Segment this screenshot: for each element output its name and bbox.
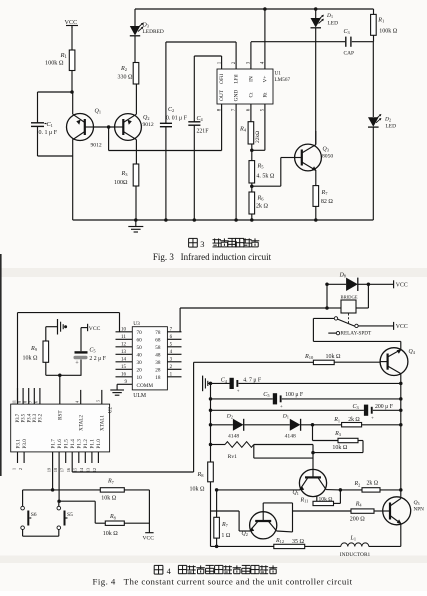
node R4-R5 xyxy=(250,149,254,153)
svg-text:VCC: VCC xyxy=(396,283,408,289)
svg-text:VCC: VCC xyxy=(396,324,408,330)
top rail xyxy=(135,8,374,10)
pin 4 wire V+ xyxy=(264,9,266,69)
svg-text:Q2: Q2 xyxy=(143,115,150,121)
diode D3 LEDRED xyxy=(130,26,140,36)
wire xyxy=(165,127,167,220)
wire xyxy=(193,125,195,220)
svg-text:13: 13 xyxy=(121,350,127,355)
switch S5 xyxy=(57,506,61,510)
svg-text:P1.0: P1.0 xyxy=(96,439,102,449)
transistor Q3 xyxy=(295,144,322,171)
svg-text:D3: D3 xyxy=(142,23,149,29)
svg-text:18: 18 xyxy=(53,468,58,472)
node D8 right xyxy=(367,283,371,287)
svg-text:48: 48 xyxy=(155,353,161,359)
svg-text:C5: C5 xyxy=(89,348,95,354)
diode D1 LED xyxy=(311,18,322,28)
resistor R4 22k xyxy=(248,122,254,144)
mcu XTAL2 pin xyxy=(80,390,82,404)
svg-text:P1.5: P1.5 xyxy=(64,439,70,449)
resistor R4 200 xyxy=(351,509,374,513)
svg-text:P3.1: P3.1 xyxy=(15,439,21,449)
wire xyxy=(315,206,317,220)
svg-text:C2: C2 xyxy=(168,107,174,113)
svg-text:2k Ω: 2k Ω xyxy=(256,204,269,210)
node rbus C4 xyxy=(399,382,403,386)
wire xyxy=(327,283,346,285)
svg-text:0. 01 μ F: 0. 01 μ F xyxy=(166,116,188,122)
node rbus C3 xyxy=(399,409,403,413)
svg-text:221F: 221F xyxy=(197,128,210,134)
svg-text:16: 16 xyxy=(121,373,127,378)
svg-text:8: 8 xyxy=(23,401,28,403)
wire bus to Q2 xyxy=(211,510,240,512)
node rail R7col xyxy=(215,545,219,549)
svg-text:4. 5k Ω: 4. 5k Ω xyxy=(256,174,275,180)
wire xyxy=(193,56,195,122)
svg-text:LM567: LM567 xyxy=(275,77,291,83)
transistor Q4 xyxy=(380,348,408,376)
svg-text:2k Ω: 2k Ω xyxy=(348,417,360,423)
wire xyxy=(94,126,115,128)
capacitor C4 4.7u xyxy=(230,378,234,389)
resistor R6 2k xyxy=(249,192,255,214)
power flag VCC (relay2) xyxy=(393,322,395,330)
svg-text:200 Ω: 200 Ω xyxy=(350,516,366,522)
resistor R8 10k (sw) xyxy=(105,521,124,525)
relay contact NC xyxy=(336,331,339,334)
svg-text:+: + xyxy=(75,359,79,366)
U3 pin9 ground xyxy=(116,384,118,390)
svg-text:P3.2: P3.2 xyxy=(39,413,44,422)
svg-text:D8: D8 xyxy=(339,273,346,279)
power flag VCC xyxy=(71,25,73,28)
resistor R1 (left 100k) xyxy=(69,50,75,71)
wire xyxy=(316,497,318,502)
svg-text:BRIDGE: BRIDGE xyxy=(341,294,358,299)
svg-text:R11: R11 xyxy=(300,498,309,504)
svg-text:Fig. 3 Infrared induction ci: Fig. 3 Infrared induction circuit xyxy=(153,252,272,262)
node bus C5 xyxy=(209,397,213,401)
svg-text:2k Ω: 2k Ω xyxy=(367,480,379,486)
wire xyxy=(165,42,167,123)
relay coil box xyxy=(341,300,356,313)
node R7col top xyxy=(215,488,219,492)
node R5-R6 xyxy=(250,184,254,188)
wire xyxy=(251,183,253,192)
capacitor C3 xyxy=(345,37,347,47)
switch S6 xyxy=(21,506,25,510)
wire P3.7 to U3 xyxy=(17,313,19,405)
capacitor C5 22u xyxy=(80,360,82,376)
svg-text:10: 10 xyxy=(121,328,127,333)
node D8 left xyxy=(325,283,329,287)
row P1.7 wire xyxy=(23,489,101,491)
mcu P3.1 P3.0 pins xyxy=(17,452,19,463)
Q2 collector wire xyxy=(277,530,293,533)
svg-text:11: 11 xyxy=(11,400,16,404)
svg-text:P3.0: P3.0 xyxy=(22,439,28,449)
driver U3 box xyxy=(132,327,167,390)
svg-text:19: 19 xyxy=(46,468,51,472)
wire xyxy=(293,510,352,512)
svg-text:C4: C4 xyxy=(197,116,204,122)
mcu XTAL1 pin xyxy=(101,390,103,404)
power flag VCC (sw) xyxy=(145,532,153,534)
wire P1.7 down xyxy=(52,463,54,490)
svg-text:P1.2: P1.2 xyxy=(83,439,89,449)
svg-text:U2: U2 xyxy=(109,406,114,412)
wire xyxy=(217,489,300,491)
svg-text:82 Ω: 82 Ω xyxy=(321,199,334,205)
node rail C2 xyxy=(164,218,168,222)
svg-text:8050: 8050 xyxy=(322,154,333,160)
svg-text:Q3: Q3 xyxy=(414,500,420,506)
Rv1 lower link xyxy=(253,445,255,459)
svg-text:100Ω: 100Ω xyxy=(114,180,128,186)
node Q1-Q2 base xyxy=(107,125,111,129)
diode D1 4148 xyxy=(290,419,301,431)
diode D8 xyxy=(346,278,358,291)
svg-text:VCC: VCC xyxy=(89,326,101,332)
svg-text:NPN: NPN xyxy=(414,507,425,513)
wire xyxy=(372,127,374,220)
svg-text:R12: R12 xyxy=(275,538,284,544)
Q2 base path xyxy=(263,502,292,504)
svg-text:11: 11 xyxy=(121,335,126,340)
wire xyxy=(373,35,375,41)
svg-text:LED: LED xyxy=(328,21,339,27)
wire xyxy=(358,440,363,442)
pin 7 GND wire xyxy=(235,104,237,220)
svg-text:D2: D2 xyxy=(384,117,391,123)
svg-text:3: 3 xyxy=(200,240,204,249)
svg-text:78: 78 xyxy=(155,330,161,336)
left bus xyxy=(210,383,212,462)
wire pin7 relay xyxy=(179,308,181,332)
resistor R2 330 xyxy=(133,63,139,85)
svg-text:15: 15 xyxy=(121,365,127,370)
resistor R7 82 xyxy=(313,186,319,207)
wire xyxy=(59,500,95,502)
wire pin8 link xyxy=(108,127,110,151)
svg-text:4148: 4148 xyxy=(228,434,239,440)
power flag VCC (relay1) xyxy=(393,280,395,288)
svg-text:Rv1: Rv1 xyxy=(228,454,238,460)
node R3-Q1 xyxy=(311,451,315,455)
resistor R1 right 100k xyxy=(371,14,377,35)
wire xyxy=(251,214,253,220)
svg-text:XTAL2: XTAL2 xyxy=(79,415,85,431)
svg-text:D1: D1 xyxy=(326,13,333,19)
resistor R3 100 xyxy=(133,164,139,186)
wire xyxy=(216,538,218,546)
C5 row wire xyxy=(211,398,273,400)
svg-text:COMM: COMM xyxy=(137,383,154,389)
diode D2 LED xyxy=(368,117,379,127)
scan artifact left edge xyxy=(0,254,2,476)
wire xyxy=(37,126,39,156)
svg-text:Q3: Q3 xyxy=(323,147,329,153)
resistor R9 10k xyxy=(45,362,47,375)
wire xyxy=(216,490,218,517)
svg-text:R1: R1 xyxy=(333,417,340,423)
wire VCC drop xyxy=(148,490,150,533)
wire xyxy=(356,307,368,309)
svg-text:P3.7: P3.7 xyxy=(16,413,21,422)
svg-text:5: 5 xyxy=(96,400,101,402)
svg-text:20: 20 xyxy=(137,368,143,374)
svg-text:35 Ω: 35 Ω xyxy=(292,539,305,545)
svg-text:10k Ω: 10k Ω xyxy=(326,354,342,360)
wire xyxy=(334,502,341,504)
svg-text:10k Ω: 10k Ω xyxy=(23,356,39,362)
svg-text:C5: C5 xyxy=(263,392,269,398)
svg-text:+: + xyxy=(237,390,240,395)
svg-text:S5: S5 xyxy=(67,512,73,518)
svg-text:XTAL1: XTAL1 xyxy=(100,415,106,431)
node rbus C5 xyxy=(399,397,403,401)
resistor R7 10k (sw) xyxy=(100,488,124,492)
node bus Rv1 xyxy=(209,443,213,447)
svg-text:D2: D2 xyxy=(226,414,233,420)
node rail GNDpin xyxy=(234,218,238,222)
svg-text:R3: R3 xyxy=(334,431,341,437)
svg-text:2 2 μ F: 2 2 μ F xyxy=(89,356,106,362)
svg-text:CAP: CAP xyxy=(344,51,355,57)
svg-text:Q1: Q1 xyxy=(293,490,299,496)
resistor R10 10k xyxy=(313,360,334,364)
U3 left pins 10-16 9 xyxy=(116,331,133,333)
ground left (C4row) xyxy=(202,376,204,392)
svg-text:Rt: Rt xyxy=(262,92,268,98)
svg-text:1: 1 xyxy=(11,468,16,470)
capacitor C2 xyxy=(160,122,172,124)
node rbus R1 xyxy=(399,423,403,427)
svg-text:14: 14 xyxy=(121,358,127,363)
svg-text:C3: C3 xyxy=(353,404,359,410)
svg-text:68: 68 xyxy=(155,338,161,344)
wire xyxy=(134,9,136,26)
node R1-C1-Q1 xyxy=(70,90,74,94)
svg-text:Fig. 4 The constant current: Fig. 4 The constant current source and t… xyxy=(93,577,353,587)
resistor R3 10k (fig4) xyxy=(338,438,358,442)
transistor Q3 (fig4) xyxy=(383,497,411,525)
C4 row wire xyxy=(211,382,230,384)
svg-text:50: 50 xyxy=(137,345,143,351)
node rail R6 xyxy=(250,218,254,222)
node diode-R3 xyxy=(311,423,315,427)
svg-text:30: 30 xyxy=(137,360,143,366)
wire R10 to P1.4 xyxy=(194,361,314,363)
svg-text:P1.7: P1.7 xyxy=(50,439,56,449)
wire xyxy=(315,9,317,18)
resistor R1 2k (fig4) xyxy=(342,423,362,427)
svg-text:D1: D1 xyxy=(282,414,289,420)
caption fig3 chinese xyxy=(188,238,190,247)
transistor Q1 (fig4) xyxy=(299,469,326,496)
svg-text:10: 10 xyxy=(137,375,143,381)
relay contact NO xyxy=(334,317,337,320)
wire xyxy=(315,28,317,145)
switch bottom wire xyxy=(23,535,59,537)
wire xyxy=(71,71,73,93)
svg-text:28: 28 xyxy=(155,368,161,374)
wire C3 row xyxy=(251,41,345,43)
svg-text:Q4: Q4 xyxy=(409,349,416,355)
svg-text:P1.4: P1.4 xyxy=(70,439,76,449)
wire xyxy=(124,522,149,524)
svg-text:9012: 9012 xyxy=(143,122,154,128)
svg-text:LFil: LFil xyxy=(234,74,240,84)
svg-text:RST: RST xyxy=(58,410,64,420)
wire xyxy=(368,283,393,285)
wire xyxy=(312,425,314,441)
svg-text:10k Ω: 10k Ω xyxy=(101,496,117,502)
wire xyxy=(38,91,73,93)
svg-text:70: 70 xyxy=(137,330,143,336)
mcu RST pin xyxy=(59,375,61,404)
svg-text:4148: 4148 xyxy=(285,434,296,440)
scan band above caption fig4 xyxy=(0,556,427,564)
wire xyxy=(334,361,380,363)
ground xyxy=(135,220,137,227)
svg-text:58: 58 xyxy=(155,345,161,351)
inductor L1 xyxy=(341,543,348,546)
node rail R3 xyxy=(134,218,138,222)
svg-text:RELAY-SPDT: RELAY-SPDT xyxy=(341,331,372,337)
wire xyxy=(326,284,328,308)
relay contact common xyxy=(355,324,358,327)
resistor R8 10k (bus) xyxy=(208,462,214,482)
diode row wire xyxy=(211,424,233,426)
caption fig4 chinese xyxy=(153,565,155,574)
svg-text:OFil: OFil xyxy=(219,74,225,84)
mcu U2 box xyxy=(11,404,110,452)
svg-text:L1: L1 xyxy=(350,536,357,542)
node RST xyxy=(58,374,62,378)
wire xyxy=(327,307,341,309)
node P1.6 xyxy=(57,499,61,503)
C3 row wire xyxy=(211,409,364,411)
svg-text:Ct: Ct xyxy=(248,92,254,98)
svg-text:7: 7 xyxy=(28,401,33,403)
capacitor C3 200u xyxy=(364,405,368,416)
wire xyxy=(251,144,253,161)
Q3 base path xyxy=(252,185,281,187)
svg-text:2: 2 xyxy=(18,468,23,470)
label C4 xyxy=(190,116,204,122)
svg-text:100 μ F: 100 μ F xyxy=(285,392,304,398)
svg-text:C4: C4 xyxy=(221,378,228,384)
svg-text:P1.3: P1.3 xyxy=(77,439,83,449)
wire xyxy=(72,139,74,156)
svg-text:330 Ω: 330 Ω xyxy=(118,75,134,81)
svg-text:100k Ω: 100k Ω xyxy=(379,29,398,35)
wire xyxy=(135,186,137,220)
wire xyxy=(46,374,82,376)
svg-text:40: 40 xyxy=(137,353,143,359)
svg-text:200 μ F: 200 μ F xyxy=(375,404,394,410)
svg-text:VCC: VCC xyxy=(143,536,155,542)
mcu P3 top pins xyxy=(17,388,19,404)
U3 right pins 7-1 xyxy=(167,331,181,333)
op-amp U1 LM567 box xyxy=(217,69,273,104)
resistor R2 2k (fig4) xyxy=(362,488,380,492)
svg-text:OUT: OUT xyxy=(219,89,225,101)
wire Q1 top xyxy=(312,445,314,470)
svg-text:10k Ω: 10k Ω xyxy=(332,445,348,451)
node bus diode row xyxy=(209,423,213,427)
svg-text:18: 18 xyxy=(155,375,161,381)
svg-text:6: 6 xyxy=(34,401,39,403)
svg-text:R4: R4 xyxy=(355,501,363,507)
capacitor C1 xyxy=(31,122,44,124)
node bus C4 xyxy=(209,382,213,386)
wire relay to Q4 xyxy=(313,317,334,319)
svg-text:V+: V+ xyxy=(262,76,268,83)
svg-text:1 Ω: 1 Ω xyxy=(221,533,231,539)
svg-text:10k Ω: 10k Ω xyxy=(103,531,119,537)
pin 5 link xyxy=(264,104,266,150)
relay dashed link xyxy=(348,314,350,324)
node P1.7 xyxy=(51,488,55,492)
node rail C4 xyxy=(193,218,197,222)
resistor R5 4.5k xyxy=(249,161,255,183)
wire xyxy=(71,27,73,50)
mcu P1 pins xyxy=(52,452,54,463)
svg-text:38: 38 xyxy=(155,360,161,366)
svg-text:GND: GND xyxy=(234,90,240,102)
resistor R11 10k xyxy=(313,501,334,505)
svg-text:+: + xyxy=(371,416,374,421)
svg-text:P3.3: P3.3 xyxy=(33,413,38,422)
resistor R7 1ohm xyxy=(214,517,220,538)
scan band between figures xyxy=(0,268,427,277)
wire P1.6 down xyxy=(58,463,60,501)
svg-text:10k Ω: 10k Ω xyxy=(319,497,333,503)
bottom rail fig4 xyxy=(211,545,274,547)
svg-text:22kΩ: 22kΩ xyxy=(255,131,261,143)
svg-text:0. 1 μ F: 0. 1 μ F xyxy=(39,130,58,136)
svg-text:C3: C3 xyxy=(344,29,350,35)
power flag VCC (C5) xyxy=(81,327,88,329)
node rail R7 xyxy=(314,218,318,222)
svg-text:100k Ω: 100k Ω xyxy=(45,60,64,67)
transistor Q1 xyxy=(67,114,94,141)
relay NC stub xyxy=(328,332,336,334)
svg-text:P1.6: P1.6 xyxy=(57,439,63,449)
svg-text:IN: IN xyxy=(248,76,254,82)
wire xyxy=(340,489,362,491)
transistor Q2 xyxy=(115,114,142,141)
capacitor C4 (221F) xyxy=(188,121,200,123)
node Q1 coll xyxy=(339,488,343,492)
svg-text:P3.4: P3.4 xyxy=(27,413,32,422)
svg-text:P1.1: P1.1 xyxy=(90,439,96,449)
svg-text:S6: S6 xyxy=(31,512,37,518)
node coil left xyxy=(325,306,329,310)
svg-text:12: 12 xyxy=(121,343,127,348)
potentiometer Rv1 xyxy=(211,444,226,446)
svg-text:P3.5: P3.5 xyxy=(22,413,27,422)
wire xyxy=(373,9,375,14)
wire xyxy=(358,283,369,285)
svg-text:R8: R8 xyxy=(109,514,116,520)
wire xyxy=(372,42,374,117)
node rbus R2 xyxy=(399,488,403,492)
